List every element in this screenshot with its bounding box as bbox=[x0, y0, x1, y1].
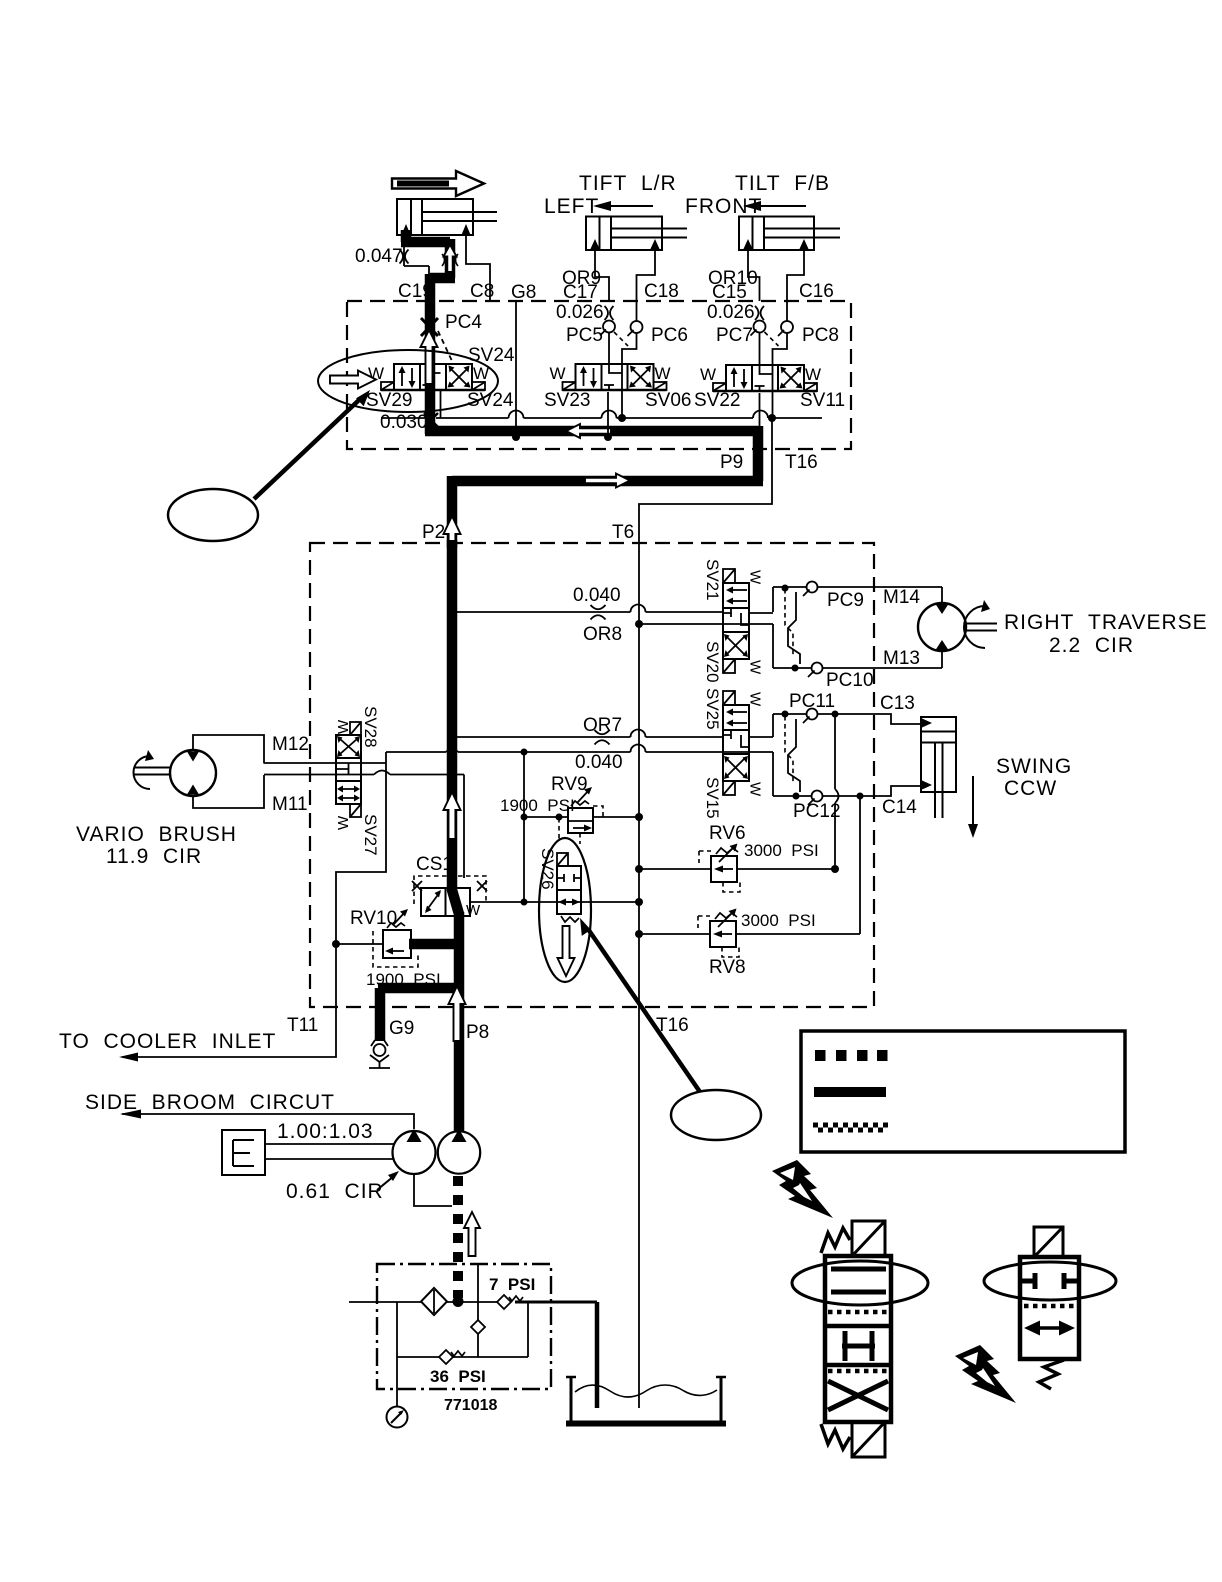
svg-text:TO COOLER INLET: TO COOLER INLET bbox=[59, 1030, 276, 1053]
svg-text:W: W bbox=[335, 719, 352, 734]
wire G8 drop bbox=[515, 301, 517, 435]
svg-text:W: W bbox=[466, 902, 481, 919]
svg-text:CCW: CCW bbox=[1004, 777, 1057, 800]
svg-text:11.9 CIR: 11.9 CIR bbox=[106, 845, 202, 868]
small solenoid valve symbol bbox=[984, 1227, 1116, 1389]
svg-text:3000 PSI: 3000 PSI bbox=[744, 841, 819, 860]
tank branch to SV21 bbox=[639, 623, 773, 625]
valve SV23/SV06 bbox=[550, 364, 671, 390]
bypass check 36 PSI bbox=[397, 1350, 528, 1386]
bridge PC9/PC10 bbox=[749, 582, 942, 692]
svg-text:SV23: SV23 bbox=[544, 390, 590, 411]
svg-text:36 PSI: 36 PSI bbox=[430, 1367, 486, 1386]
svg-text:RIGHT TRAVERSE: RIGHT TRAVERSE bbox=[1004, 611, 1208, 634]
svg-text:C18: C18 bbox=[644, 281, 679, 302]
cylinder C19/C8 (lift) bbox=[397, 199, 497, 236]
svg-text:0.040: 0.040 bbox=[573, 585, 621, 606]
thick branch G9 bbox=[378, 988, 461, 1041]
svg-text:SV28: SV28 bbox=[361, 706, 380, 748]
svg-text:G9: G9 bbox=[389, 1018, 414, 1039]
svg-text:SV21: SV21 bbox=[703, 559, 722, 601]
svg-text:0.026: 0.026 bbox=[707, 302, 755, 323]
svg-text:TIFT L/R: TIFT L/R bbox=[579, 172, 677, 195]
side broom circuit takeoff bbox=[85, 1091, 414, 1129]
orifice 0.030 on thick line bbox=[380, 412, 438, 433]
relief valve RV8 3000psi bbox=[635, 909, 860, 979]
svg-text:3000 PSI: 3000 PSI bbox=[741, 911, 816, 930]
svg-text:PC4: PC4 bbox=[445, 312, 482, 333]
callout arrow to SV29 bbox=[254, 390, 370, 499]
svg-text:RV8: RV8 bbox=[709, 957, 746, 978]
dump line through SV26 to tank trunk bbox=[524, 901, 639, 903]
flow arrow up P2 bbox=[444, 516, 461, 563]
svg-text:M13: M13 bbox=[883, 648, 920, 669]
tank trunk line T16/T6 bbox=[639, 418, 772, 1408]
check valve 7 PSI bbox=[489, 1275, 535, 1309]
svg-text:SV24: SV24 bbox=[468, 345, 515, 366]
svg-text:2.2 CIR: 2.2 CIR bbox=[1049, 634, 1134, 657]
gauge port G9 bbox=[369, 1040, 390, 1068]
check valve PC4 on thick line bbox=[421, 312, 482, 361]
wires C17 C18 bbox=[595, 250, 655, 301]
flow arrow up (small, with hooks) bbox=[442, 254, 458, 266]
svg-text:771018: 771018 bbox=[444, 1397, 497, 1414]
svg-text:PC12: PC12 bbox=[793, 801, 841, 822]
orifice OR10 0.026 bbox=[707, 302, 764, 323]
svg-text:SV29: SV29 bbox=[366, 390, 412, 411]
valve SV21/SV20 bbox=[723, 569, 764, 675]
lightning bolt 2 bbox=[955, 1345, 1016, 1403]
brush return line crossing to SV25 bbox=[386, 745, 773, 753]
svg-text:RV10: RV10 bbox=[350, 908, 397, 929]
svg-text:PC6: PC6 bbox=[651, 325, 688, 346]
callout ellipse around SV26 bbox=[539, 838, 591, 982]
valve SV29/SV24 bbox=[368, 364, 489, 390]
svg-text:T11: T11 bbox=[287, 1015, 318, 1036]
svg-text:P8: P8 bbox=[466, 1022, 489, 1043]
svg-text:T6: T6 bbox=[612, 522, 634, 543]
svg-text:0.030: 0.030 bbox=[380, 412, 428, 433]
M11 feed drop to CS1 bbox=[463, 775, 465, 879]
svg-text:LEFT: LEFT bbox=[544, 195, 599, 218]
flow arrow up P8 bbox=[449, 986, 466, 1041]
flow arrow up beside suction bbox=[464, 1212, 480, 1256]
pilot check PC8 bbox=[765, 301, 839, 365]
suction line (square-dotted) bbox=[453, 1176, 463, 1298]
C13 drop line to RV6 bbox=[835, 714, 839, 869]
C14 drop line to RV8 bbox=[859, 796, 861, 934]
svg-text:RV6: RV6 bbox=[709, 823, 746, 844]
svg-text:VARIO BRUSH: VARIO BRUSH bbox=[76, 823, 237, 846]
svg-text:C14: C14 bbox=[882, 797, 917, 818]
junction dots on thick rail bbox=[512, 433, 520, 441]
flow arrow left on P9 rail bbox=[566, 424, 611, 438]
svg-text:W: W bbox=[335, 815, 352, 830]
orifice line OR8 bbox=[457, 585, 723, 645]
motor lines M12 / M11 bbox=[264, 763, 464, 775]
svg-text:G8: G8 bbox=[511, 282, 536, 303]
svg-text:SV15: SV15 bbox=[703, 777, 722, 819]
wires C15 C16 bbox=[748, 250, 804, 301]
svg-text:SV22: SV22 bbox=[694, 390, 740, 411]
svg-text:M12: M12 bbox=[272, 734, 309, 755]
wire C8 from rod end to port C8 bbox=[466, 236, 490, 301]
relief valve RV10 1900psi bbox=[332, 908, 441, 989]
svg-text:C16: C16 bbox=[799, 281, 834, 302]
callout arrow to SV26 bbox=[580, 918, 700, 1092]
cylinder C15/C16 bbox=[739, 217, 840, 251]
svg-text:PC11: PC11 bbox=[789, 691, 835, 712]
orifice 0.047 branch bbox=[355, 246, 429, 278]
white pointer arrow in ellipse bbox=[330, 371, 376, 389]
svg-text:T16: T16 bbox=[656, 1015, 689, 1036]
flow control CS1 bbox=[412, 854, 524, 919]
relief valve RV6 3000psi bbox=[635, 823, 839, 892]
svg-text:1.00:1.03: 1.00:1.03 bbox=[277, 1120, 374, 1143]
svg-text:SV06: SV06 bbox=[645, 390, 691, 411]
swing cylinder bbox=[921, 717, 1072, 838]
svg-text:SV27: SV27 bbox=[361, 814, 380, 856]
svg-text:1900 PSI: 1900 PSI bbox=[500, 796, 575, 815]
thick supply line to cylinder bbox=[401, 230, 455, 434]
svg-text:M11: M11 bbox=[272, 794, 308, 815]
svg-text:PC9: PC9 bbox=[827, 590, 864, 611]
pilot check PC6 bbox=[614, 301, 688, 365]
svg-text:C8: C8 bbox=[470, 281, 494, 302]
lightning bolt 1 bbox=[772, 1160, 833, 1218]
bridge PC11/PC12 bbox=[749, 691, 921, 822]
orifice line OR7 bbox=[457, 715, 723, 773]
svg-text:RV9: RV9 bbox=[551, 774, 588, 795]
svg-text:PC5: PC5 bbox=[566, 325, 603, 346]
svg-text:C19: C19 bbox=[398, 281, 433, 302]
electric motor E bbox=[222, 1120, 394, 1175]
valve SV22/SV11 bbox=[700, 365, 821, 391]
pump 1 (side broom 0.61 CIR) bbox=[286, 1129, 452, 1206]
svg-text:SV20: SV20 bbox=[703, 641, 722, 683]
valve SV27/SV28 bbox=[335, 706, 380, 856]
svg-text:P2: P2 bbox=[422, 522, 445, 543]
svg-text:7 PSI: 7 PSI bbox=[489, 1275, 535, 1294]
callout balloon bbox=[168, 489, 258, 541]
inlet line bbox=[349, 1301, 421, 1303]
pressure gauge bbox=[387, 1302, 408, 1428]
cylinder C17/C18 bbox=[586, 217, 687, 251]
svg-text:0.61 CIR: 0.61 CIR bbox=[286, 1180, 384, 1203]
svg-text:TILT F/B: TILT F/B bbox=[735, 172, 830, 195]
filter bbox=[421, 1288, 447, 1315]
internal verticals bbox=[478, 1264, 528, 1357]
solenoid dump valve SV26 bbox=[538, 848, 581, 922]
svg-text:PC7: PC7 bbox=[716, 325, 753, 346]
svg-text:SV11: SV11 bbox=[800, 390, 845, 411]
svg-text:C15: C15 bbox=[712, 282, 747, 303]
pilot check PC7 bbox=[716, 320, 766, 365]
svg-text:T16: T16 bbox=[785, 452, 818, 473]
svg-text:SWING: SWING bbox=[996, 755, 1072, 778]
motor RIGHT TRAVERSE bbox=[918, 587, 1208, 668]
big solenoid valve symbol bbox=[792, 1221, 928, 1457]
flow arrow down inside ellipse bbox=[558, 926, 575, 976]
callout balloon lower bbox=[671, 1090, 761, 1140]
svg-text:M14: M14 bbox=[883, 587, 920, 608]
return branch to cooler bbox=[122, 752, 386, 1057]
svg-text:OR8: OR8 bbox=[583, 624, 622, 645]
RV9 relief 1900psi bbox=[500, 749, 643, 903]
flow arrow right on lower rail bbox=[585, 474, 630, 488]
svg-text:PC8: PC8 bbox=[802, 325, 839, 346]
svg-text:PC10: PC10 bbox=[826, 670, 874, 691]
flow arrow up (above CS1) bbox=[444, 792, 461, 839]
svg-text:C13: C13 bbox=[880, 693, 915, 714]
svg-text:0.047: 0.047 bbox=[355, 246, 403, 267]
svg-text:C17: C17 bbox=[563, 282, 598, 303]
svg-text:OR7: OR7 bbox=[583, 715, 622, 736]
valve SV25/SV15 bbox=[723, 691, 764, 797]
svg-text:SV25: SV25 bbox=[703, 688, 722, 730]
callout ellipse around SV29 bbox=[318, 350, 498, 412]
pump 2 (main P8) bbox=[438, 1129, 480, 1174]
svg-text:P9: P9 bbox=[720, 452, 743, 473]
svg-text:0.026: 0.026 bbox=[556, 302, 604, 323]
flow direction arrow (outlined) bbox=[392, 171, 484, 196]
pilot check PC5 bbox=[566, 320, 615, 365]
tank rail in top box bbox=[381, 411, 822, 418]
orifice OR9 0.026 bbox=[556, 302, 614, 323]
svg-text:SIDE BROOM CIRCUT: SIDE BROOM CIRCUT bbox=[85, 1091, 335, 1114]
thick pressure rail P9 bbox=[425, 426, 763, 548]
svg-text:0.040: 0.040 bbox=[575, 752, 623, 773]
thick stub RV10 bbox=[409, 939, 456, 950]
